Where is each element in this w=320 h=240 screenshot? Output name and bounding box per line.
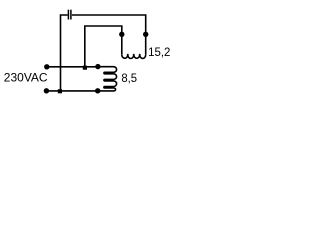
- node dot L2 bottom: [95, 88, 100, 93]
- inductor L1 value 15,2 (horizontal coil): [122, 54, 146, 59]
- svg-text:8,5: 8,5: [121, 71, 137, 85]
- svg-text:230VAC: 230VAC: [4, 71, 48, 85]
- wire left vertical from capacitor loop down to bottom rail: [61, 15, 68, 90]
- inductor L2 value 8,5 (vertical coil) with top and bottom leads: [98, 67, 117, 91]
- node dot 230VAC top terminal: [44, 64, 49, 69]
- bottom rail wire from 230VAC bottom terminal to L2 bottom node: [47, 90, 98, 92]
- node dot L2 top: [95, 64, 100, 69]
- node dot L1 right: [143, 32, 148, 37]
- top rail wire from 230VAC top terminal to L2 top node: [47, 66, 98, 68]
- wire inner horizontal with vertical drop to top rail and L1 left lead: [85, 26, 122, 66]
- svg-text:15,2: 15,2: [148, 45, 171, 59]
- capacitor: [68, 10, 71, 20]
- node dot 230VAC bottom terminal: [44, 88, 49, 93]
- junction square on bottom rail: [58, 89, 62, 93]
- junction square on top rail: [83, 66, 87, 70]
- node dot L1 left: [119, 32, 124, 37]
- wire top from capacitor right plate to right corner down to L1 right lead: [72, 15, 146, 55]
